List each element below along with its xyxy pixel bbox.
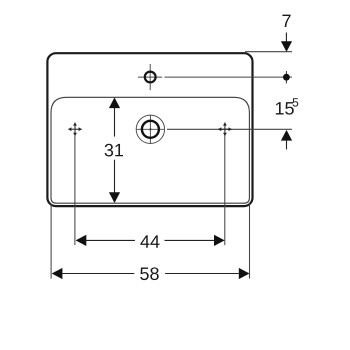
dimension 31 line with arrows	[109, 97, 120, 203]
basin bowl inner outline	[51, 97, 249, 203]
dimension 58 line with arrows	[52, 268, 250, 279]
drain hole	[142, 121, 159, 138]
right optional tap hole marker	[218, 123, 231, 136]
extension line left outer edge	[50, 204, 52, 279]
dimension 44 line with arrows	[76, 235, 225, 246]
drain centerline to right	[167, 128, 292, 130]
dimension 7 arrow	[281, 33, 292, 52]
drain crosshair	[136, 115, 165, 144]
tap hole crosshair	[138, 64, 162, 90]
extension line from right marker	[224, 136, 226, 245]
dimension 58 text	[140, 267, 159, 280]
drain outer circle	[136, 115, 164, 143]
washbasin outer outline	[47, 53, 252, 206]
dimension 31 text	[105, 144, 123, 157]
drain center dot	[149, 128, 151, 130]
dimension 15.5 arrow	[281, 130, 292, 150]
tap hole	[145, 72, 156, 83]
dimension 15.5 text	[276, 102, 294, 115]
left optional tap hole marker	[68, 123, 81, 136]
extension line right outer edge	[249, 204, 251, 279]
top edge extension line	[245, 51, 292, 53]
tap hole centerline to right	[165, 76, 293, 78]
dimension 15.5 origin dot	[283, 71, 290, 83]
extension line from left marker	[74, 136, 76, 245]
dimension 44 text	[140, 235, 159, 247]
dimension 7 text	[282, 15, 290, 27]
